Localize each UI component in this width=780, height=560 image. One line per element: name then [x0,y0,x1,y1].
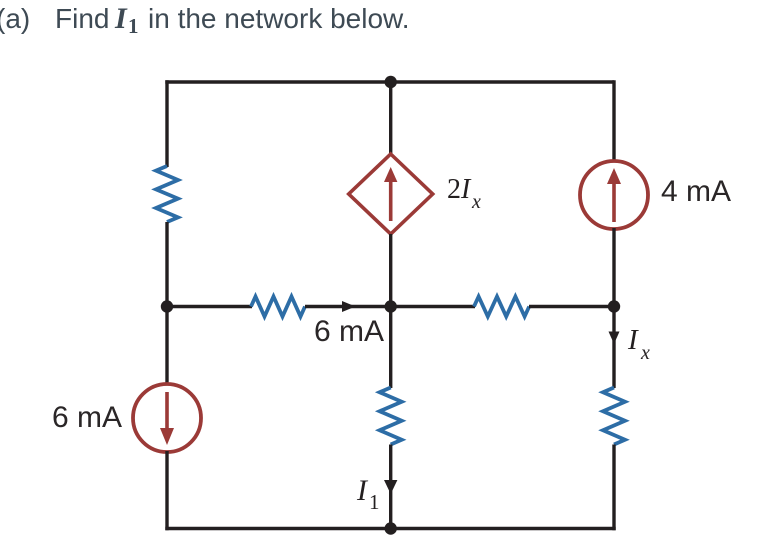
resistor right branch [603,388,625,445]
node junction right middle [608,300,620,312]
svg-text:(a): (a) [0,3,30,34]
wire: top horizontal (node top-left to node top-right) [165,80,614,83]
wire: bottom horizontal [165,527,615,530]
wire: left branch bottom segment [165,451,168,530]
svg-text:I: I [114,2,128,35]
node junction left middle [161,300,173,312]
svg-text:6 mA: 6 mA [52,401,122,434]
current label I1 [356,474,380,514]
wire: right branch top segment [612,80,615,162]
svg-text:Find: Find [55,3,109,34]
wire: middle branch bottom segment with I1 arrow [389,445,392,529]
svg-text:x: x [640,342,650,364]
resistor middle horizontal left [251,297,305,317]
dependent current source 2Ix (diamond, arrow up) [349,154,433,234]
svg-text:I: I [627,324,639,356]
current source 4 mA (right branch, arrow up) [580,161,648,229]
current arrow I1 (on middle branch) [384,480,397,494]
node junction top middle [385,76,397,88]
wire: middle branch between diamond and center node [389,234,392,308]
wire: middle branch top segment [389,82,392,155]
wire: middle horizontal, right resistor to right node [529,305,614,308]
value label 6 mA (left source) [52,401,122,434]
wire: left branch top segment [165,80,168,167]
current label Ix [627,324,650,364]
resistor middle branch [380,388,402,445]
svg-text:x: x [471,191,481,213]
wire: middle branch below center node [389,307,392,389]
wire: left branch middle segment [165,222,168,385]
wire: middle horizontal, center node to right resistor [391,305,475,308]
value label 2Ix [447,174,481,213]
current source 6 mA (left branch, arrow down) [133,384,201,452]
resistor middle horizontal right [474,297,529,317]
current label 6 mA (middle) [314,315,384,348]
svg-text:2: 2 [447,174,461,205]
svg-text:1: 1 [128,14,139,38]
wire: middle horizontal, resistor to center node [305,305,391,308]
svg-text:4 mA: 4 mA [661,175,731,208]
svg-text:I: I [356,474,369,507]
title text [0,2,410,38]
svg-text:in the network below.: in the network below. [148,3,410,34]
current arrow Ix (on right branch) [609,332,620,345]
value label 4 mA [661,175,731,208]
resistor left branch [156,166,178,222]
node junction bottom middle [385,522,397,534]
node junction center [385,300,397,312]
current arrow 6 mA (on middle horizontal wire, pointing right) [342,301,356,312]
svg-text:I: I [460,174,472,205]
svg-text:1: 1 [369,490,380,514]
wire: right branch between source and right node, with Ix arrow [612,228,615,388]
wire: middle horizontal, left node to resistor [167,305,252,308]
wire: right branch bottom segment [612,445,615,531]
svg-text:6 mA: 6 mA [314,315,384,348]
